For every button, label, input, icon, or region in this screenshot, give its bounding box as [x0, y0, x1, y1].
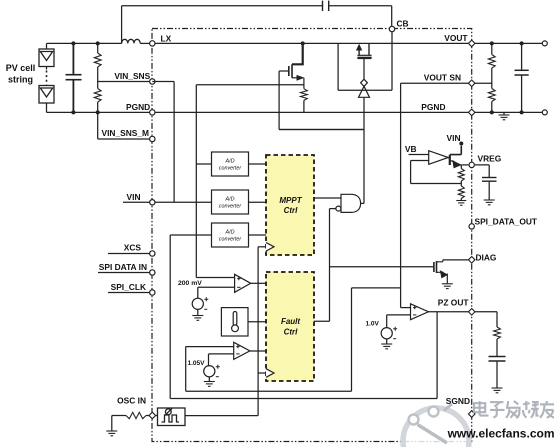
inductor L1 [122, 39, 141, 43]
wire divider middle [97, 67, 99, 89]
wire R to C [496, 339, 498, 356]
ground 1.05V source [204, 382, 215, 387]
svg-text:converter: converter [219, 204, 242, 210]
resistor R sense [301, 89, 308, 101]
svg-text:Fault: Fault [281, 317, 300, 326]
svg-text:1.05V: 1.05V [188, 360, 206, 367]
pin SPI_CLK [150, 290, 155, 295]
svg-text:SPI DATA IN: SPI DATA IN [99, 262, 147, 272]
wire inverter input from NAND [363, 97, 365, 203]
svg-text:A/D: A/D [225, 230, 235, 236]
capacitor C VREG [482, 178, 497, 182]
wire VOUT_SN vertical [400, 83, 402, 307]
wire PGND ground stub [503, 112, 505, 115]
wire Fault out to gate [314, 209, 330, 322]
wire VREG to external cap [475, 165, 489, 177]
wire MPPT out to gate input [314, 197, 341, 199]
wire comparator minus to 200mV source [198, 287, 235, 298]
wire VIN external stub [123, 201, 150, 203]
capacitor COUT [515, 43, 529, 112]
resistor R3 output divider upper [488, 55, 495, 69]
terminal PGND [542, 110, 547, 115]
svg-text:OSC IN: OSC IN [117, 396, 146, 406]
ground PZ filter [492, 388, 503, 393]
comparator U8 undervoltage [234, 342, 250, 359]
wire temp sensor to Fault [248, 321, 266, 323]
svg-text:MPPT: MPPT [279, 196, 302, 205]
wire PGND external rail [475, 111, 542, 113]
wire CB bootstrap internal loop [338, 32, 392, 91]
wire C to ground [496, 362, 498, 389]
wire clock to Fault [258, 372, 266, 374]
svg-text:XCS: XCS [124, 243, 142, 253]
wire PV2 top [46, 85, 48, 86]
transistor Q3 DIAG open drain [434, 260, 469, 284]
svg-text:A/D: A/D [225, 159, 235, 165]
svg-text:VB: VB [405, 144, 417, 154]
wire AD3 out to MPPT [249, 234, 267, 236]
wire UV comparator plus input [186, 346, 234, 348]
junction divider bottom [96, 110, 100, 114]
junction input cap top [71, 41, 75, 45]
wire fault to DIAG FET gate [330, 266, 434, 268]
wire emitter to VREG pin [461, 164, 468, 166]
ground output [499, 115, 510, 120]
wire to R1 top [97, 43, 99, 53]
resistor R4 output divider lower [488, 89, 495, 102]
wire R2 bottom through PGND to VIN_SNS_M pin [98, 102, 151, 139]
wire OSC IN external [112, 415, 126, 417]
wire regulator feedback loop [411, 161, 462, 184]
pin VOUT [468, 40, 475, 47]
wire PZ output feedback down [436, 312, 438, 399]
wire VIN_SNS to AD2 [152, 82, 174, 203]
wire VIN to pass transistor collector [450, 146, 462, 155]
MPPT clock input chevron [266, 243, 274, 252]
svg-text:CB: CB [397, 19, 409, 29]
wire internal PGND rail [155, 111, 468, 113]
svg-text:PGND: PGND [126, 102, 150, 112]
ground DIAG FET [442, 284, 453, 289]
svg-text:LX: LX [161, 34, 172, 44]
wire to feedback divider [460, 165, 462, 169]
svg-text:www.elecfans.com: www.elecfans.com [447, 427, 554, 441]
wire UV loop bottom [186, 390, 352, 392]
resistor R1 input divider upper [94, 53, 101, 67]
resistor R2 input divider lower [94, 89, 101, 103]
wire input bottom PGND rail [47, 111, 153, 113]
wire divider mid [460, 181, 462, 186]
pin LX [150, 41, 155, 46]
pin CB [389, 26, 394, 31]
pin VIN_SNS_M [150, 136, 155, 141]
PV cell PV2 [39, 86, 54, 104]
svg-text:SPI_DATA_OUT: SPI_DATA_OUT [475, 217, 538, 227]
wire to ground [460, 199, 462, 201]
wire sense vertical [195, 85, 197, 278]
wire Q1 gate to driver node [279, 71, 364, 130]
wire VB input [409, 154, 429, 156]
wire PV2 bottom to ground rail [46, 103, 48, 112]
wire to ground osc [111, 416, 113, 432]
wire SPI DATA IN external stub [98, 272, 150, 274]
junction output cap top [520, 41, 524, 45]
comparator U6 overcurrent [235, 274, 251, 292]
wire VOUT external rail [475, 42, 542, 44]
pin SPI_DATA_OUT [469, 224, 474, 229]
wire resistor to OSC IN pin [146, 415, 149, 417]
Fault clock input chevron [266, 369, 274, 378]
svg-text:VIN: VIN [127, 192, 141, 202]
wire inductor to LX pin [140, 42, 150, 44]
resistor R fb lower [458, 186, 464, 199]
wire VOUT_SN pin to sense line [401, 82, 469, 84]
capacitor C bootstrap [323, 1, 329, 11]
wire PZ amp minus to 1.0V source [387, 315, 411, 328]
terminal VOUT [542, 41, 547, 46]
wire UV loop left [185, 347, 187, 392]
ground VREG cap [484, 200, 495, 205]
pin VOUT SN [468, 80, 475, 87]
capacitor CIN input [66, 43, 82, 112]
transistor Q4 pass device [449, 155, 451, 165]
wire VOUT_SN branch down [351, 288, 353, 391]
wire VIN_SNS tap to pin [98, 81, 151, 83]
wire UV comparator minus to source [209, 354, 234, 366]
voltage source 1.05V [204, 365, 220, 377]
wire AD1 out to MPPT [249, 163, 267, 165]
svg-text:1.0V: 1.0V [366, 321, 380, 328]
wire input top rail [47, 42, 122, 44]
wire gate tee [279, 129, 364, 131]
pin DIAG [468, 257, 475, 264]
transistor Q2 synchronous FET [357, 43, 371, 58]
pin VREG [469, 162, 474, 167]
wire comparator out to Fault [251, 282, 266, 284]
wire VOUT_SN branch [352, 287, 401, 289]
wire PZ amp output to pin [428, 311, 468, 313]
resistor R osc [126, 412, 146, 418]
svg-text:string: string [8, 75, 33, 85]
wire sense to comparator plus [196, 277, 234, 279]
wire oscillator to clock rail [185, 247, 258, 416]
wire PZ feedback bottom [170, 398, 437, 400]
svg-text:DIAG: DIAG [476, 253, 497, 263]
A/D converter U_AD1 [212, 152, 249, 176]
svg-text:VIN_SNS: VIN_SNS [114, 71, 150, 81]
wire OSC pin to box [156, 415, 158, 417]
wire amp to base [448, 158, 450, 159]
pin OSC IN [149, 412, 156, 419]
wire VIN pin and AD2 input [155, 201, 212, 203]
junction VIN supply [459, 142, 463, 146]
wire to PZ amp plus [401, 307, 411, 309]
wire sense to AD1 input [196, 163, 211, 165]
wire cap to ground [488, 182, 490, 200]
ground regulator divider [456, 201, 466, 206]
svg-text:VIN_SNS_M: VIN_SNS_M [102, 128, 149, 138]
A/D converter U_AD2 [212, 190, 249, 214]
svg-text:PZ OUT: PZ OUT [438, 298, 470, 308]
wire source to ground [208, 377, 210, 382]
MPPT Ctrl block U3 [266, 155, 314, 255]
temperature sensor U7 [221, 308, 248, 336]
voltage source 1.0V [381, 327, 397, 339]
gate driver inverter U2 [359, 79, 370, 97]
wire current sense tap [196, 84, 304, 86]
junction divider top [96, 41, 100, 45]
amplifier U11 VB buffer [429, 151, 449, 165]
svg-text:PV cell: PV cell [6, 63, 36, 73]
svg-text:converter: converter [219, 166, 242, 172]
wire UV comparator out to Fault [250, 350, 266, 352]
wire VOUT_SN pin to divider [475, 82, 492, 84]
svg-text:converter: converter [219, 237, 242, 243]
ground 200mV source [192, 316, 203, 321]
wire AD3 input loop [170, 235, 211, 399]
junction cap bottom right [520, 110, 524, 114]
junction left FET drain [301, 41, 305, 45]
junction output divider top [490, 41, 494, 45]
transistor Q1 sense FET [289, 43, 304, 88]
pin XCS [150, 251, 155, 256]
watermark chinese characters [474, 401, 489, 416]
resistor R fb upper [458, 169, 464, 182]
wire Q2 gate to inverter [363, 59, 365, 79]
wire gate output [361, 202, 364, 204]
wire LX-VOUT rail [155, 42, 468, 44]
ground osc input [106, 431, 117, 436]
wire output R4 to PGND [491, 102, 493, 113]
pin PZ OUT [468, 309, 475, 316]
wire clock to MPPT [258, 246, 266, 248]
svg-text:A/D: A/D [225, 197, 235, 203]
op-amp U10 PZ driver [411, 304, 429, 320]
wire PV1 bottom [46, 67, 48, 70]
Fault Ctrl block U4 [266, 272, 314, 381]
svg-text:200 mV: 200 mV [178, 280, 202, 287]
resistor R PZ [494, 327, 501, 339]
junction divider bottom right [490, 110, 494, 114]
wire sense resistor to PGND [303, 100, 305, 112]
junction input cap bottom [71, 110, 75, 114]
wire bootstrap loop LX to CB [122, 6, 392, 44]
wire PV1 top to input rail [46, 43, 48, 49]
watermark logo [403, 404, 469, 447]
pin VIN [150, 200, 155, 205]
pin SGND [468, 411, 475, 418]
wire XCS external stub [108, 253, 150, 255]
wire SPI_CLK external stub [108, 292, 150, 294]
wire source to ground [386, 339, 388, 344]
wire PZ OUT external [475, 312, 497, 327]
wire output divider mid [491, 68, 493, 89]
PV cell PV1 [39, 49, 54, 67]
voltage source 200 mV [192, 297, 208, 309]
svg-text:VREG: VREG [478, 154, 502, 164]
dotted series connection between PV cells [46, 71, 48, 85]
svg-text:SPI_CLK: SPI_CLK [111, 282, 146, 292]
wire source to ground [197, 309, 199, 315]
pin SPI DATA IN [150, 270, 155, 275]
pin PGND left [150, 110, 155, 115]
ground 1.0V source [381, 344, 392, 349]
svg-text:VIN: VIN [447, 133, 461, 143]
svg-text:VOUT SN: VOUT SN [424, 73, 461, 83]
IC boundary dashed box [152, 29, 472, 442]
pin VIN_SNS [150, 79, 155, 84]
wire AD2 out to MPPT [249, 201, 267, 203]
NAND gate U5 [336, 194, 361, 212]
wire gate bubble input [330, 208, 336, 210]
svg-text:VOUT: VOUT [444, 33, 468, 43]
oscillator box U9 [158, 408, 186, 426]
capacitor C PZ [489, 357, 506, 362]
pin PGND right [468, 109, 475, 116]
svg-text:PGND: PGND [421, 102, 445, 112]
svg-text:Ctrl: Ctrl [284, 328, 299, 337]
A/D converter U_AD3 [212, 223, 249, 247]
svg-text:Ctrl: Ctrl [284, 206, 299, 215]
wire to output R1 [491, 43, 493, 54]
